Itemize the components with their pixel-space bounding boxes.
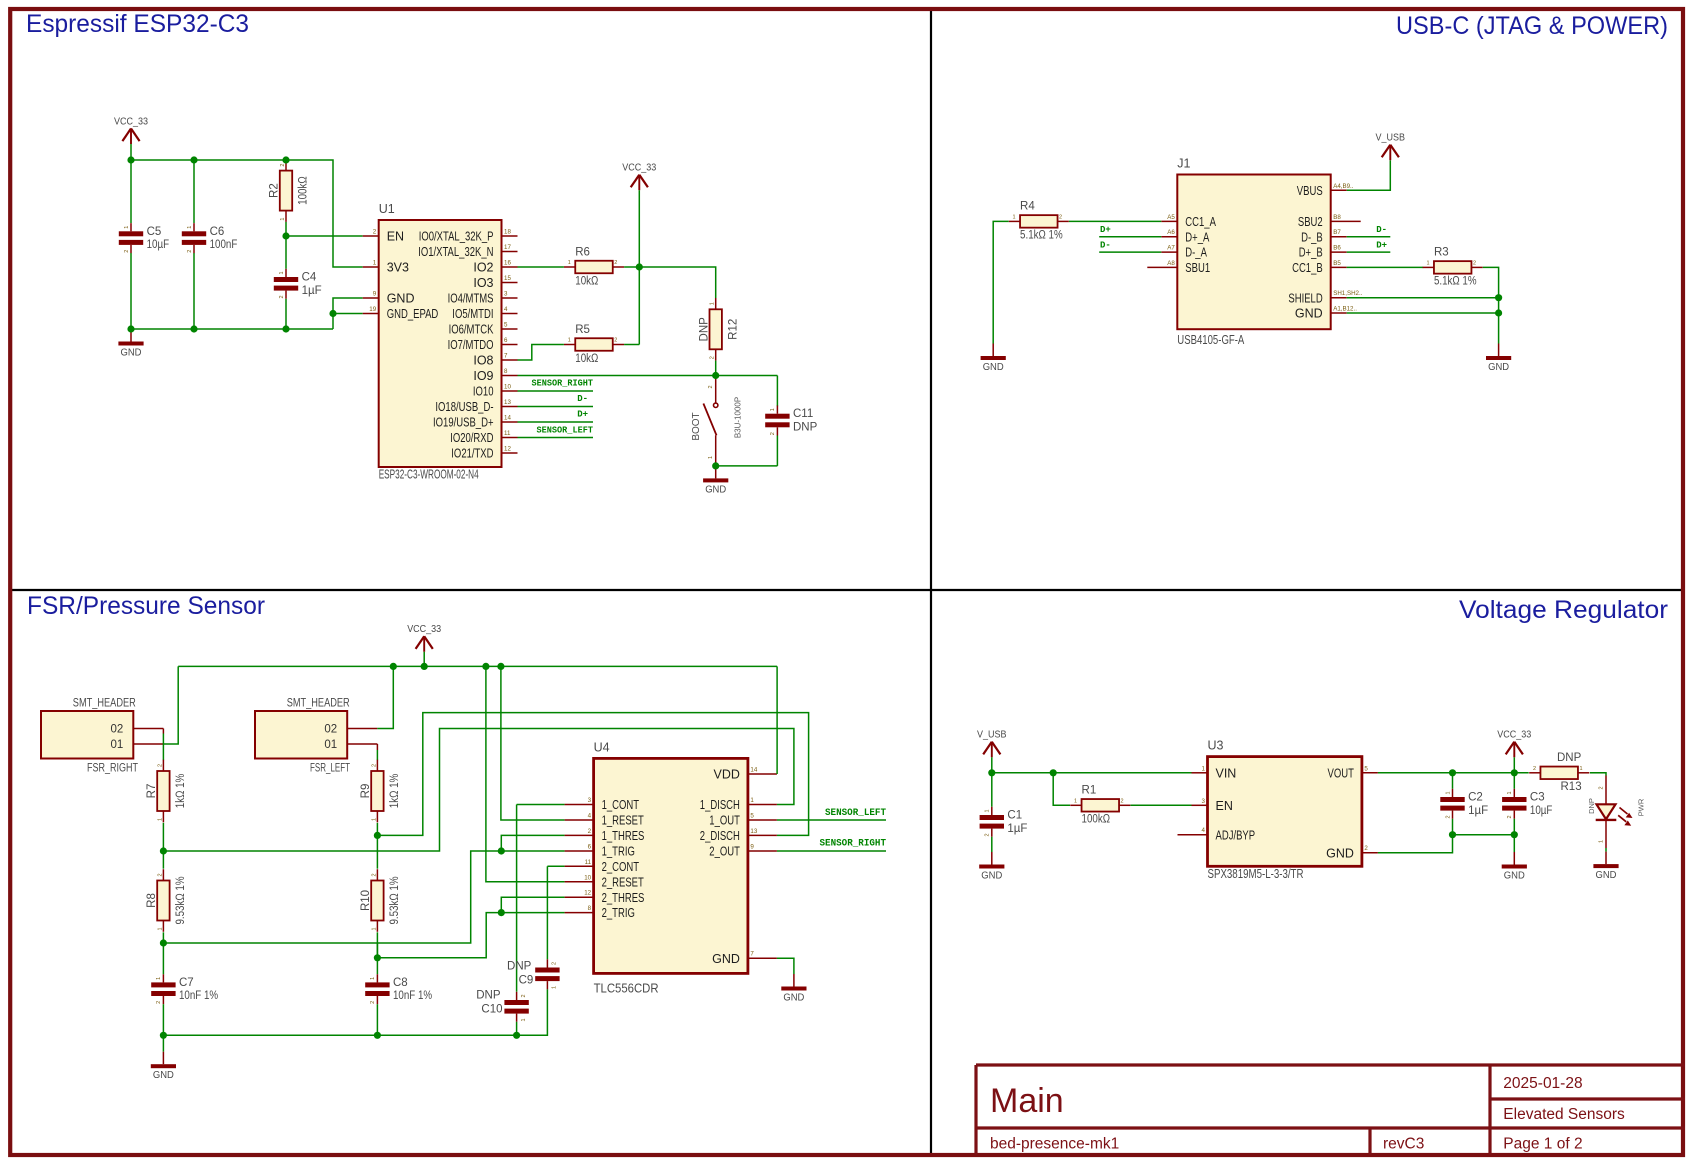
svg-text:2: 2 — [770, 432, 776, 435]
svg-text:1_OUT: 1_OUT — [709, 814, 740, 828]
svg-text:1_CONT: 1_CONT — [602, 798, 640, 812]
svg-text:GND: GND — [981, 871, 1002, 882]
svg-text:IO9: IO9 — [473, 369, 493, 383]
svg-text:IO10: IO10 — [473, 385, 494, 399]
svg-text:2: 2 — [614, 260, 617, 266]
svg-text:SH1,SH2..: SH1,SH2.. — [1333, 290, 1363, 297]
svg-text:10µF: 10µF — [1530, 805, 1553, 817]
svg-text:V_USB: V_USB — [1376, 133, 1406, 144]
svg-text:6: 6 — [588, 844, 592, 851]
svg-text:SPX3819M5-L-3-3/TR: SPX3819M5-L-3-3/TR — [1208, 867, 1304, 881]
svg-text:IO19/USB_D+: IO19/USB_D+ — [433, 416, 494, 430]
svg-text:11: 11 — [504, 430, 511, 437]
svg-text:100kΩ: 100kΩ — [298, 176, 310, 205]
svg-text:C5: C5 — [147, 226, 162, 238]
svg-text:R4: R4 — [1020, 201, 1035, 213]
svg-text:D-_B: D-_B — [1301, 230, 1323, 244]
svg-text:2: 2 — [521, 994, 527, 997]
svg-text:FSR/Pressure Sensor: FSR/Pressure Sensor — [27, 592, 265, 620]
svg-text:3: 3 — [588, 797, 592, 804]
svg-text:C1: C1 — [1007, 810, 1022, 822]
svg-text:CC1_A: CC1_A — [1185, 215, 1216, 229]
svg-text:1: 1 — [552, 986, 558, 989]
svg-text:revC3: revC3 — [1383, 1136, 1424, 1153]
svg-text:TLC556CDR: TLC556CDR — [594, 982, 659, 996]
svg-text:U4: U4 — [594, 741, 610, 755]
svg-text:1: 1 — [1507, 791, 1513, 794]
svg-text:VCC_33: VCC_33 — [114, 116, 148, 127]
svg-text:1: 1 — [770, 408, 776, 411]
svg-text:01: 01 — [111, 739, 124, 751]
svg-text:100nF: 100nF — [210, 239, 238, 251]
svg-text:SENSOR_RIGHT: SENSOR_RIGHT — [532, 378, 594, 388]
svg-text:1: 1 — [1598, 840, 1604, 843]
svg-text:ESP32-C3-WROOM-02-N4: ESP32-C3-WROOM-02-N4 — [379, 468, 479, 482]
svg-text:1: 1 — [157, 818, 163, 821]
svg-text:1: 1 — [187, 226, 193, 229]
svg-text:2: 2 — [371, 764, 377, 767]
svg-text:2: 2 — [373, 229, 377, 236]
svg-text:IO18/USB_D-: IO18/USB_D- — [435, 400, 493, 414]
svg-text:EN: EN — [1216, 799, 1233, 813]
svg-text:2: 2 — [1445, 815, 1451, 818]
svg-text:VBUS: VBUS — [1297, 184, 1323, 198]
svg-text:IO21/TXD: IO21/TXD — [451, 447, 493, 461]
svg-text:13: 13 — [504, 399, 511, 406]
svg-text:bed-presence-mk1: bed-presence-mk1 — [990, 1136, 1119, 1153]
svg-text:1: 1 — [1445, 791, 1451, 794]
svg-text:2: 2 — [1121, 799, 1124, 805]
svg-text:GND: GND — [121, 348, 142, 359]
svg-text:D-: D- — [1376, 225, 1387, 235]
svg-text:GND: GND — [387, 292, 415, 306]
svg-text:5.1kΩ 1%: 5.1kΩ 1% — [1434, 276, 1477, 288]
svg-text:1_THRES: 1_THRES — [602, 829, 645, 843]
svg-text:D-: D- — [1100, 241, 1111, 251]
svg-text:DNP: DNP — [698, 317, 710, 342]
svg-text:2: 2 — [156, 1001, 162, 1004]
svg-text:2: 2 — [157, 873, 163, 876]
svg-text:2: 2 — [708, 385, 714, 388]
svg-text:Elevated Sensors: Elevated Sensors — [1503, 1106, 1625, 1123]
svg-text:C10: C10 — [481, 1003, 502, 1015]
svg-text:A7: A7 — [1167, 245, 1175, 252]
svg-text:D+: D+ — [1376, 241, 1387, 251]
svg-text:GND: GND — [783, 993, 804, 1004]
svg-text:9: 9 — [373, 291, 377, 298]
svg-text:100kΩ: 100kΩ — [1082, 814, 1111, 826]
svg-text:B6: B6 — [1333, 245, 1341, 252]
svg-text:VCC_33: VCC_33 — [407, 624, 441, 635]
svg-text:1: 1 — [156, 977, 162, 980]
svg-text:10kΩ: 10kΩ — [575, 275, 598, 287]
svg-text:2_RESET: 2_RESET — [602, 875, 644, 889]
svg-text:1: 1 — [750, 797, 754, 804]
svg-text:10: 10 — [504, 384, 511, 391]
svg-text:1: 1 — [1426, 261, 1429, 267]
svg-text:1kΩ 1%: 1kΩ 1% — [175, 774, 187, 809]
svg-text:1: 1 — [1013, 215, 1016, 221]
svg-text:8: 8 — [504, 368, 508, 375]
svg-text:C3: C3 — [1530, 792, 1545, 804]
svg-text:1kΩ 1%: 1kΩ 1% — [389, 774, 401, 809]
svg-text:U1: U1 — [379, 202, 395, 216]
svg-text:SBU2: SBU2 — [1298, 215, 1323, 229]
svg-text:2: 2 — [124, 250, 130, 253]
svg-text:ADJ/BYP: ADJ/BYP — [1216, 828, 1256, 842]
svg-text:1: 1 — [708, 456, 714, 459]
svg-text:1: 1 — [1074, 799, 1077, 805]
svg-text:1: 1 — [568, 260, 571, 266]
svg-text:R2: R2 — [269, 183, 281, 198]
svg-text:2_CONT: 2_CONT — [602, 860, 640, 874]
svg-text:IO8: IO8 — [473, 354, 493, 368]
svg-text:PWR: PWR — [1636, 798, 1645, 816]
svg-text:A8: A8 — [1167, 260, 1175, 267]
svg-text:VCC_33: VCC_33 — [1497, 730, 1531, 741]
svg-text:6: 6 — [504, 337, 508, 344]
svg-text:1µF: 1µF — [1468, 805, 1488, 817]
svg-text:IO5/MTDI: IO5/MTDI — [452, 307, 493, 321]
svg-text:14: 14 — [750, 767, 757, 774]
svg-text:R6: R6 — [575, 246, 590, 258]
svg-text:2: 2 — [985, 833, 991, 836]
svg-text:A1,B12..: A1,B12.. — [1333, 306, 1357, 313]
svg-text:2_TRIG: 2_TRIG — [602, 906, 635, 920]
svg-text:1_RESET: 1_RESET — [602, 814, 644, 828]
svg-text:1µF: 1µF — [302, 285, 322, 297]
svg-text:FSR_LEFT: FSR_LEFT — [310, 763, 350, 775]
svg-text:2: 2 — [1473, 261, 1476, 267]
svg-text:GND: GND — [1326, 846, 1354, 860]
svg-text:2: 2 — [1059, 215, 1062, 221]
svg-text:IO4/MTMS: IO4/MTMS — [448, 292, 494, 306]
svg-text:12: 12 — [504, 446, 511, 453]
svg-text:R8: R8 — [146, 893, 158, 908]
svg-text:GND: GND — [1596, 870, 1617, 881]
svg-text:A6: A6 — [1167, 229, 1175, 236]
svg-text:R3: R3 — [1434, 247, 1449, 259]
svg-text:2: 2 — [1598, 786, 1604, 789]
svg-text:1: 1 — [371, 927, 377, 930]
svg-text:2_OUT: 2_OUT — [709, 845, 740, 859]
svg-text:VIN: VIN — [1216, 766, 1237, 780]
svg-text:1: 1 — [521, 1018, 527, 1021]
svg-text:12: 12 — [584, 890, 591, 897]
svg-text:BOOT: BOOT — [691, 412, 702, 440]
svg-text:IO6/MTCK: IO6/MTCK — [449, 323, 494, 337]
svg-text:Espressif ESP32-C3: Espressif ESP32-C3 — [26, 10, 249, 38]
svg-text:14: 14 — [504, 415, 511, 422]
svg-text:01: 01 — [324, 739, 337, 751]
svg-text:4: 4 — [1202, 827, 1206, 834]
svg-text:2: 2 — [371, 873, 377, 876]
svg-text:C2: C2 — [1468, 792, 1483, 804]
svg-text:1: 1 — [1579, 766, 1582, 772]
svg-text:SHIELD: SHIELD — [1288, 291, 1322, 305]
svg-text:7: 7 — [750, 951, 754, 958]
svg-text:GND: GND — [1488, 362, 1509, 373]
svg-text:D+: D+ — [577, 410, 588, 420]
svg-text:GND: GND — [983, 362, 1004, 373]
svg-text:VDD: VDD — [713, 768, 739, 782]
svg-text:9: 9 — [750, 844, 754, 851]
svg-text:2: 2 — [710, 356, 716, 359]
svg-text:Page 1 of 2: Page 1 of 2 — [1503, 1136, 1582, 1153]
svg-text:DNP: DNP — [1557, 752, 1582, 764]
svg-text:C11: C11 — [793, 408, 813, 420]
svg-text:Main: Main — [990, 1082, 1064, 1120]
svg-text:2_THRES: 2_THRES — [602, 891, 645, 905]
svg-text:1: 1 — [157, 927, 163, 930]
svg-text:B5: B5 — [1333, 260, 1341, 267]
svg-text:DNP: DNP — [1587, 798, 1596, 814]
svg-text:B8: B8 — [1333, 214, 1341, 221]
svg-text:IO0/XTAL_32K_P: IO0/XTAL_32K_P — [419, 230, 494, 244]
svg-text:GND: GND — [1504, 871, 1525, 882]
svg-text:02: 02 — [111, 724, 124, 736]
svg-text:Voltage Regulator: Voltage Regulator — [1459, 596, 1668, 624]
svg-text:A4,B9..: A4,B9.. — [1333, 183, 1354, 190]
svg-text:C7: C7 — [179, 977, 194, 989]
svg-text:1: 1 — [371, 818, 377, 821]
svg-text:8: 8 — [588, 905, 592, 912]
svg-text:3: 3 — [504, 291, 508, 298]
svg-text:VOUT: VOUT — [1328, 766, 1355, 780]
svg-text:SENSOR_LEFT: SENSOR_LEFT — [825, 808, 886, 819]
svg-text:USB-C (JTAG & POWER): USB-C (JTAG & POWER) — [1396, 12, 1668, 40]
svg-text:1: 1 — [710, 302, 716, 305]
svg-text:10µF: 10µF — [147, 239, 170, 251]
svg-text:1: 1 — [370, 977, 376, 980]
svg-text:GND: GND — [712, 952, 740, 966]
svg-text:17: 17 — [504, 244, 511, 251]
svg-text:R13: R13 — [1561, 781, 1582, 793]
svg-text:1_DISCH: 1_DISCH — [700, 798, 740, 812]
svg-text:2: 2 — [279, 295, 285, 298]
svg-text:2: 2 — [1507, 815, 1513, 818]
svg-text:D+_B: D+_B — [1299, 246, 1323, 260]
svg-text:DNP: DNP — [476, 990, 501, 1002]
svg-text:1: 1 — [985, 809, 991, 812]
svg-text:SMT_HEADER: SMT_HEADER — [287, 698, 350, 710]
svg-text:U3: U3 — [1208, 739, 1224, 753]
svg-text:R12: R12 — [727, 319, 739, 340]
svg-text:10: 10 — [584, 874, 591, 881]
svg-text:USB4105-GF-A: USB4105-GF-A — [1177, 333, 1245, 347]
svg-text:EN: EN — [387, 230, 404, 244]
svg-text:SBU1: SBU1 — [1185, 261, 1210, 275]
svg-text:IO1/XTAL_32K_N: IO1/XTAL_32K_N — [418, 245, 493, 259]
svg-text:IO3: IO3 — [473, 276, 493, 290]
svg-text:GND: GND — [153, 1070, 174, 1081]
svg-text:1: 1 — [373, 260, 377, 267]
svg-text:GND: GND — [1295, 307, 1323, 321]
svg-text:C9: C9 — [519, 974, 534, 986]
svg-text:10kΩ: 10kΩ — [575, 353, 598, 365]
svg-text:4: 4 — [504, 306, 508, 313]
svg-text:VCC_33: VCC_33 — [622, 163, 656, 174]
svg-text:2: 2 — [552, 962, 558, 965]
svg-text:CC1_B: CC1_B — [1292, 261, 1323, 275]
svg-text:5: 5 — [504, 322, 508, 329]
svg-text:1µF: 1µF — [1007, 823, 1027, 835]
svg-text:2: 2 — [187, 250, 193, 253]
svg-text:D+_A: D+_A — [1185, 230, 1209, 244]
svg-text:2: 2 — [157, 764, 163, 767]
svg-text:SENSOR_LEFT: SENSOR_LEFT — [537, 425, 594, 435]
svg-text:10nF 1%: 10nF 1% — [179, 990, 218, 1002]
svg-text:16: 16 — [504, 260, 511, 267]
svg-text:DNP: DNP — [507, 960, 532, 972]
svg-text:4: 4 — [588, 813, 592, 820]
svg-text:1: 1 — [568, 338, 571, 344]
svg-text:2025-01-28: 2025-01-28 — [1503, 1075, 1582, 1092]
svg-text:2_DISCH: 2_DISCH — [700, 829, 740, 843]
svg-text:SMT_HEADER: SMT_HEADER — [73, 698, 136, 710]
svg-text:B7: B7 — [1333, 229, 1341, 236]
svg-text:C4: C4 — [302, 272, 317, 284]
svg-text:2: 2 — [588, 828, 592, 835]
svg-text:2: 2 — [1364, 845, 1368, 852]
svg-text:A5: A5 — [1167, 214, 1175, 221]
svg-text:5.1kΩ 1%: 5.1kΩ 1% — [1020, 230, 1063, 242]
svg-text:1: 1 — [279, 271, 285, 274]
svg-text:GND_EPAD: GND_EPAD — [387, 307, 439, 321]
svg-text:2: 2 — [1533, 766, 1536, 772]
svg-text:FSR_RIGHT: FSR_RIGHT — [87, 763, 138, 775]
svg-text:9.53kΩ 1%: 9.53kΩ 1% — [389, 876, 401, 924]
svg-text:9.53kΩ 1%: 9.53kΩ 1% — [175, 876, 187, 924]
svg-text:5: 5 — [1364, 765, 1368, 772]
svg-text:R9: R9 — [360, 784, 372, 799]
svg-text:DNP: DNP — [793, 422, 818, 434]
svg-text:2: 2 — [370, 1001, 376, 1004]
svg-text:11: 11 — [585, 859, 592, 866]
svg-text:R10: R10 — [360, 890, 372, 911]
svg-text:R1: R1 — [1082, 785, 1097, 797]
svg-text:IO2: IO2 — [473, 261, 493, 275]
svg-text:13: 13 — [750, 828, 757, 835]
svg-text:D+: D+ — [1100, 225, 1111, 235]
svg-text:R7: R7 — [146, 784, 158, 799]
svg-text:2: 2 — [280, 164, 286, 167]
svg-text:C8: C8 — [393, 977, 408, 989]
svg-text:1: 1 — [124, 226, 130, 229]
svg-text:R5: R5 — [575, 324, 590, 336]
svg-text:15: 15 — [504, 275, 511, 282]
svg-text:D-_A: D-_A — [1185, 246, 1207, 260]
svg-text:V_USB: V_USB — [977, 730, 1007, 741]
svg-text:3: 3 — [1202, 798, 1206, 805]
svg-text:D-: D- — [577, 394, 588, 404]
svg-text:7: 7 — [504, 353, 508, 360]
svg-text:1: 1 — [1202, 765, 1206, 772]
svg-text:IO20/RXD: IO20/RXD — [450, 431, 493, 445]
svg-text:19: 19 — [369, 306, 376, 313]
svg-text:GND: GND — [705, 484, 726, 495]
svg-text:1_TRIG: 1_TRIG — [602, 845, 635, 859]
svg-text:1: 1 — [280, 218, 286, 221]
svg-text:C6: C6 — [210, 226, 225, 238]
svg-text:10nF 1%: 10nF 1% — [393, 990, 432, 1002]
svg-text:IO7/MTDO: IO7/MTDO — [448, 338, 494, 352]
svg-text:02: 02 — [324, 724, 337, 736]
svg-text:18: 18 — [504, 229, 511, 236]
svg-text:J1: J1 — [1177, 157, 1190, 171]
svg-text:5: 5 — [750, 813, 754, 820]
svg-text:3V3: 3V3 — [387, 261, 409, 275]
svg-text:2: 2 — [614, 338, 617, 344]
svg-text:SENSOR_RIGHT: SENSOR_RIGHT — [820, 839, 887, 850]
svg-text:B3U-1000P: B3U-1000P — [734, 397, 743, 438]
